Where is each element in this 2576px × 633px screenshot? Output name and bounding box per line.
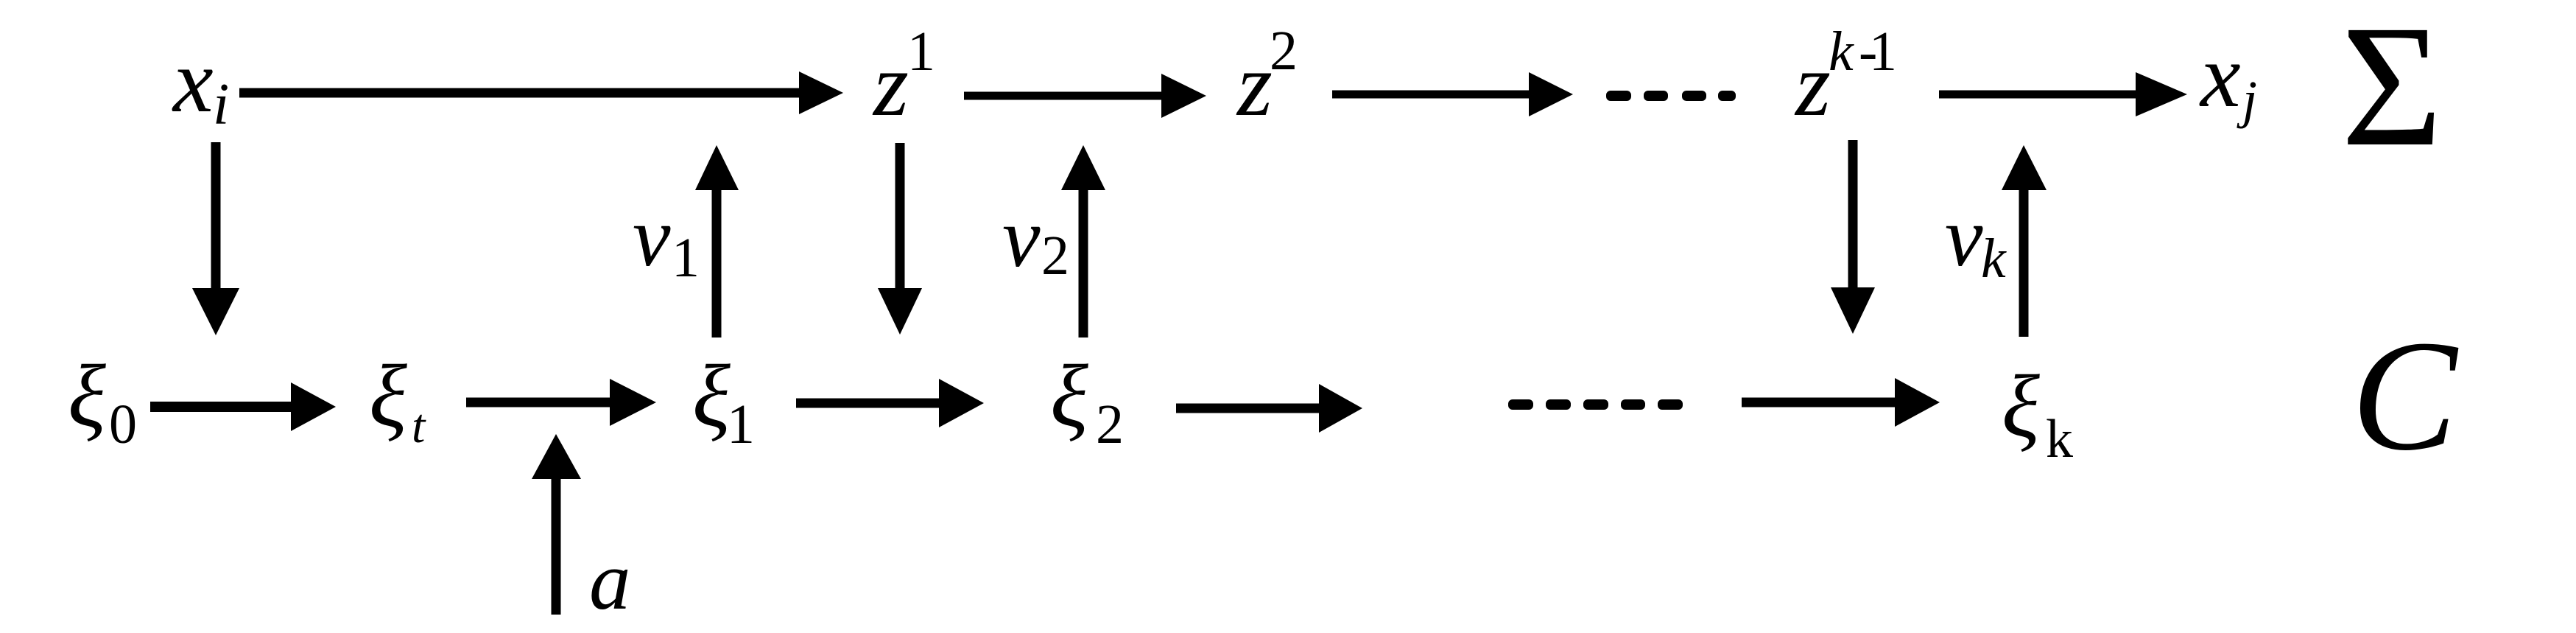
svg-text:2: 2 — [1270, 20, 1298, 82]
svg-text:z: z — [1236, 34, 1273, 135]
wire down arrow from x_i — [192, 142, 239, 335]
node xi_0 — [68, 347, 137, 455]
svg-text:2: 2 — [1096, 394, 1124, 455]
svg-text:x: x — [172, 30, 214, 131]
node x_i — [172, 30, 229, 137]
svg-text:ξ: ξ — [369, 347, 407, 446]
svg-text:a: a — [589, 535, 631, 627]
wire up arrow v2 — [1061, 145, 1105, 338]
svg-text:1: 1 — [727, 394, 755, 455]
svg-text:k: k — [1829, 21, 1854, 83]
svg-text:v: v — [633, 190, 671, 284]
svg-text:v: v — [1002, 191, 1041, 285]
svg-text:1: 1 — [907, 21, 935, 83]
svg-text:v: v — [1945, 190, 1983, 284]
label v_1 — [633, 190, 700, 289]
wire up arrow v1 — [695, 145, 739, 338]
svg-text:1: 1 — [1869, 21, 1897, 83]
wire arrow xi0 to xit — [150, 382, 336, 431]
wire arrow zk-1 to x_j — [1939, 72, 2187, 116]
svg-text:2: 2 — [1041, 225, 1069, 287]
wire arrow x_i to z1 — [239, 71, 843, 114]
node xi_2 — [1050, 347, 1124, 455]
svg-text:x: x — [2199, 25, 2241, 126]
svg-text:i: i — [213, 72, 229, 137]
wire arrow xi2 to dashes — [1176, 384, 1362, 433]
svg-text:t: t — [412, 399, 426, 453]
svg-text:ξ: ξ — [1050, 347, 1088, 446]
svg-text:z: z — [872, 34, 909, 135]
svg-text:Σ: Σ — [2341, 0, 2443, 183]
node xi_t — [369, 347, 426, 453]
svg-text:k: k — [1981, 228, 2007, 290]
node x_j — [2199, 25, 2257, 129]
label v_2 — [1002, 191, 1069, 287]
wire dashed segment top — [1606, 91, 1736, 101]
wire arrow z2 to dashes — [1332, 72, 1573, 116]
svg-text:ξ: ξ — [692, 347, 731, 446]
wire down arrow from zk-1 — [1831, 140, 1875, 334]
node z1 — [872, 21, 935, 135]
node xi_1 — [692, 347, 755, 455]
node z k-1 — [1794, 21, 1897, 135]
wire arrow dashes to xi_k — [1742, 378, 1940, 427]
node z2 — [1236, 20, 1298, 135]
svg-text:k: k — [2046, 409, 2073, 469]
wire down arrow from z1 — [878, 143, 922, 335]
node xi_k — [2002, 357, 2073, 469]
svg-text:z: z — [1794, 34, 1831, 135]
wire dashed segment bottom — [1508, 399, 1683, 410]
svg-text:0: 0 — [109, 394, 137, 455]
wire arrow xi1 to xi2 — [796, 379, 984, 427]
svg-text:1: 1 — [672, 227, 700, 289]
svg-text:ξ: ξ — [68, 347, 106, 446]
wire arrow z1 to z2 — [964, 74, 1206, 118]
wire arrow xit to xi1 — [466, 379, 656, 426]
svg-text:ξ: ξ — [2002, 357, 2040, 456]
label v_k — [1945, 190, 2007, 290]
wire up arrow a — [532, 434, 581, 615]
svg-text:C: C — [2351, 307, 2459, 483]
wire up arrow vk — [2002, 145, 2047, 337]
